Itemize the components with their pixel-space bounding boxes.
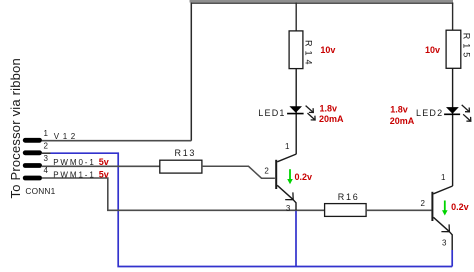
svg-text:10v: 10v (320, 45, 335, 55)
svg-text:0.2v: 0.2v (295, 172, 313, 182)
svg-text:R16: R16 (338, 192, 360, 202)
svg-text:1.8v: 1.8v (390, 105, 408, 115)
svg-text:R14: R14 (303, 40, 313, 69)
svg-text:2: 2 (421, 199, 426, 208)
svg-text:3: 3 (442, 238, 447, 247)
svg-text:V12: V12 (54, 132, 79, 141)
svg-text:To Processor via ribbon: To Processor via ribbon (8, 58, 23, 198)
svg-text:5v: 5v (99, 170, 109, 180)
svg-text:2: 2 (44, 141, 49, 150)
svg-text:LED1: LED1 (258, 108, 285, 118)
svg-text:3: 3 (44, 154, 49, 163)
svg-text:3: 3 (286, 204, 291, 213)
svg-text:1: 1 (441, 173, 446, 182)
svg-text:R13: R13 (175, 148, 197, 158)
svg-text:2: 2 (264, 166, 269, 175)
svg-text:PWM0-1: PWM0-1 (53, 158, 96, 167)
svg-text:CONN1: CONN1 (25, 186, 55, 196)
svg-text:20mA: 20mA (319, 114, 344, 124)
svg-text:20mA: 20mA (390, 116, 415, 126)
svg-text:0.2v: 0.2v (451, 202, 469, 212)
svg-text:PWM1-1: PWM1-1 (53, 171, 96, 180)
svg-text:5v: 5v (99, 157, 109, 167)
svg-text:4: 4 (44, 166, 49, 175)
svg-text:10v: 10v (425, 45, 440, 55)
svg-text:1: 1 (285, 142, 290, 151)
svg-text:R15: R15 (461, 33, 471, 62)
svg-text:1: 1 (44, 129, 49, 138)
svg-text:1.8v: 1.8v (320, 104, 338, 114)
svg-text:LED2: LED2 (416, 108, 443, 118)
